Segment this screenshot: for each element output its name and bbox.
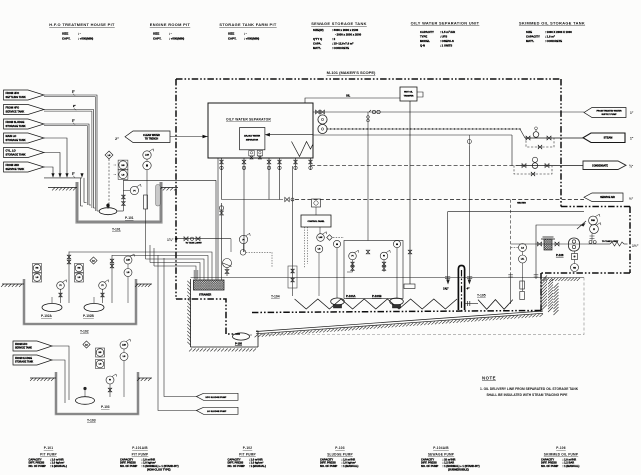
svg-text:SERVICE TANK: SERVICE TANK [15,347,32,350]
instr cluster T-102 A [33,264,42,273]
strainer standpipe [195,270,198,280]
slope hatch [255,314,543,337]
svg-text:P-101A/B: P-101A/B [132,446,148,450]
svg-text:TO TRENCH: TO TRENCH [145,138,159,140]
flag: FROM TREATED WATER SUPPLY PUMP [584,108,626,118]
svg-text:HEATER: HEATER [517,201,526,204]
instr: LAH sewage [317,234,325,242]
svg-text:PI: PI [133,190,135,192]
svg-text:DIFF. PRESS: DIFF. PRESS [320,461,336,465]
svg-text:P-104A/B: P-104A/B [433,446,449,450]
svg-text:FROM HFO: FROM HFO [6,91,20,95]
svg-text:2″: 2″ [115,136,119,141]
wire: heavy oil line along pit bottom [252,311,541,313]
wire: water discharge line y=135 [313,134,512,136]
wires from left flags [44,95,97,211]
svg-text:: 1.0 kg/cm²: : 1.0 kg/cm² [142,461,156,465]
flag: HFO SLUDGE PUMP [197,393,239,400]
instr: LAH T-103 [120,341,128,349]
svg-text:SERVICE TANK: SERVICE TANK [6,109,25,113]
wire: service air dashed line [295,199,584,201]
svg-text:CAPACITY: CAPACITY [120,457,133,461]
valve stubs in frame [366,250,370,254]
oil suction standpipe between pits [458,266,464,311]
check valves discharge [589,241,592,244]
wire: condensate drop x=512 [511,135,513,166]
svg-text:TO TANK LORRY: TO TANK LORRY [186,241,203,244]
pump P-102B [84,304,104,312]
instr: HS P-106 [571,264,579,272]
flag: CYL LO STORAGE TANK [4,148,45,158]
weir zigzag inside separator [292,142,314,157]
svg-text:P-102B: P-102B [83,314,95,318]
svg-text:PIT PUMP: PIT PUMP [239,452,256,456]
wires to sludge pump flags [164,258,197,397]
grade hatch left of T-103 [30,377,56,379]
pit T-105 sawtooth bottom [478,300,513,310]
flag: STEAM [583,133,625,143]
svg-text:LAH: LAH [122,344,126,347]
svg-text:P-105: P-105 [235,342,242,346]
wire: heavy oil line into deep pit [176,299,240,334]
svg-text:: 15~12.6+7.6 m³: : 15~12.6+7.6 m³ [332,42,353,46]
svg-text:FROM SLUDGE: FROM SLUDGE [6,120,25,124]
wire: LO header [44,177,82,179]
svg-text:SIZE: SIZE [526,30,532,34]
wires from T-103 flags [52,346,69,400]
gauge PI near strainer [239,235,247,243]
wire: P-101 discharge header to strainer [123,179,216,181]
svg-text:2″: 2″ [72,120,75,123]
inner box bottom fittings [249,151,254,156]
svg-text:LAH: LAH [126,259,130,262]
svg-text:SHALL BE INSULATED WITH STEAM: SHALL BE INSULATED WITH STEAM TRACING PI… [487,393,569,397]
svg-text:1″: 1″ [630,111,634,115]
svg-text:STORAGE TANK: STORAGE TANK [6,124,26,128]
instr: LAH T-102 [124,256,132,264]
svg-text:MAT'L: MAT'L [313,46,321,50]
svg-text:NO. OF PUMP: NO. OF PUMP [421,464,439,468]
svg-text:SLUDGE PUMP: SLUDGE PUMP [327,452,353,456]
svg-text:: 1.0 kg/cm²: : 1.0 kg/cm² [342,461,356,465]
svg-text:STORAGE TANK: STORAGE TANK [15,361,34,364]
svg-text:PI: PI [102,285,104,287]
wire: condensate drain drop to T-105 [447,212,449,282]
instr: level switch diamond T-101 [105,151,113,159]
svg-text:: -: : - [78,32,81,36]
wire: oil line from separator to waste oil box [305,98,400,103]
wire: sludge box in T-104 [288,266,297,288]
svg-text:: CONCRETE: : CONCRETE [332,46,349,50]
svg-text:PI: PI [242,239,244,241]
svg-text:T-105: T-105 [477,294,486,298]
svg-text:FROM TREATED WATER: FROM TREATED WATER [596,110,621,113]
unit: oily water separator box [208,103,313,158]
grade hatch left of T-101 [48,187,77,189]
wire: heavy oil line west at y275 [541,272,630,274]
svg-text:: -: : - [169,32,172,36]
pump P-102A [42,304,62,312]
wire: separator feed risers to strainer [217,158,219,280]
svg-text:LS: LS [123,356,126,358]
svg-text:: 1.0 m³/HR: : 1.0 m³/HR [142,457,156,461]
svg-text:DIFF. PRESS: DIFF. PRESS [421,461,437,465]
wire: P-102A discharge riser [68,252,70,304]
wire: standpipe outlet to T-105 [465,303,478,305]
arrowheads on LO header [51,173,54,177]
instr: LS sewage [315,245,323,253]
svg-text:: 1 (NORMAL) + 1 (STAND-BY): : 1 (NORMAL) + 1 (STAND-BY) [443,464,480,468]
svg-text:DIFF. PRESS: DIFF. PRESS [120,461,136,465]
svg-text:CAPACITY: CAPACITY [541,457,554,461]
inner box feed line with arrow [265,134,313,136]
svg-text:SERVICE AIR: SERVICE AIR [600,196,615,199]
instr: motor P-104B [393,240,400,247]
svg-text:: 1 (MANUAL): : 1 (MANUAL) [50,464,67,468]
wire: drains down to collection header [221,166,223,200]
pump frame for P-104A/B [344,241,403,299]
svg-text:SEWAGE STORAGE TANK: SEWAGE STORAGE TANK [311,21,367,26]
svg-text:PI: PI [383,256,385,258]
instr: LAH circle with flag [143,151,151,159]
deep pit left wall [190,279,192,347]
wire: LAH stem down to pump [146,170,148,209]
junction dot on boundary [175,237,178,240]
svg-text:CAPA.: CAPA. [313,42,322,46]
svg-text:NO. OF PUMP: NO. OF PUMP [541,464,559,468]
arrow from tank line [580,223,586,227]
panel signal dotted lines [304,227,306,268]
svg-text:1″: 1″ [630,137,634,141]
svg-text:CAPACITY: CAPACITY [320,457,333,461]
svg-text:LS: LS [36,277,39,279]
svg-text:MODEL: MODEL [420,39,430,43]
wire bundle to strainer [69,252,212,280]
svg-text:Q'TY Q: Q'TY Q [313,37,323,41]
grade hatch right of T-103 [138,377,152,379]
svg-text:PIT PUMP: PIT PUMP [132,452,149,456]
svg-text:M: M [146,164,148,167]
wire: treated water line y=112 [313,111,584,113]
svg-text:SIZE(W): SIZE(W) [313,28,324,32]
svg-text:HS: HS [36,268,39,270]
svg-text:OILY WATER SEPARATOR: OILY WATER SEPARATOR [226,118,271,122]
slope bank lines [256,311,543,332]
flag: FROM SLUDGE STORAGE TANK (T-103) [13,355,52,365]
svg-text:2″: 2″ [72,173,75,176]
svg-text:NO. OF PUMP: NO. OF PUMP [120,464,138,468]
wire: panel line down [319,227,321,234]
wire: branch down to sewage discharge [367,112,369,124]
svg-text:CAPACITY: CAPACITY [29,457,42,461]
svg-text:- 2000 x 2000 x 2000: - 2000 x 2000 x 2000 [335,33,362,37]
steam valve group [525,137,583,139]
svg-text:OILY WATER SEPARATION UNIT: OILY WATER SEPARATION UNIT [411,21,480,26]
svg-text:PIT PUMP: PIT PUMP [40,452,57,456]
svg-text:: 1 (NORMAL) + 1 (STAND-BY): : 1 (NORMAL) + 1 (STAND-BY) [142,464,179,468]
svg-text:NO. OF PUMP: NO. OF PUMP [29,464,47,468]
svg-text:P-106: P-106 [556,253,564,257]
svg-text:1¾″: 1¾″ [167,238,174,242]
steam trap x=470 [468,135,470,146]
svg-text:P-103: P-103 [101,405,110,409]
flag: SERVICE AIR [584,193,623,202]
separator drain valves [221,158,223,170]
wire: trench line to separator [170,136,208,138]
svg-text:4″: 4″ [467,287,471,291]
svg-text:P-104A: P-104A [346,294,355,298]
svg-text:2″: 2″ [72,91,75,94]
svg-text:: +500(MIN): : +500(MIN) [78,37,93,41]
svg-text:: 1 UNITS: : 1 UNITS [440,44,452,48]
gauge small dotted [240,250,246,256]
svg-text:SEWAGE PUMP: SEWAGE PUMP [428,452,455,456]
control panel box [301,215,331,227]
svg-text:LS: LS [521,247,524,249]
waste oil transfer box [400,87,417,101]
svg-text:1. OIL DELIVERY LINE FROM SEPA: 1. OIL DELIVERY LINE FROM SEPARATED OIL … [480,387,579,391]
svg-text:2″: 2″ [73,105,76,108]
svg-text:PI: PI [352,256,354,258]
svg-text:FROM HFO: FROM HFO [15,344,27,346]
svg-text:STORAGE TANK: STORAGE TANK [6,152,26,156]
svg-text:CONDENSATE: CONDENSATE [592,164,608,167]
svg-text:: 1.9 m³: : 1.9 m³ [545,35,555,39]
flag: MAIN LO STORAGE TANK [4,133,45,143]
svg-text:: 1.2 BAR: : 1.2 BAR [563,461,575,465]
wire: drain drop 4in to T-105 [468,146,470,282]
instr: PI gauge P-101 [130,186,138,194]
svg-text:: +500(MIN): : +500(MIN) [169,37,184,41]
svg-text:: 1.0 m³/HR: : 1.0 m³/HR [249,457,263,461]
svg-text:CAPY.: CAPY. [62,37,71,41]
svg-text:PAH: PAH [591,219,595,222]
svg-text:P-102A: P-102A [41,314,53,318]
wire: heavy oil line down to pit bottom [540,273,542,310]
svg-text:DIFF. PRESS: DIFF. PRESS [541,461,557,465]
svg-text:NO. OF PUMP: NO. OF PUMP [320,464,338,468]
svg-text:DIFF. PRESS: DIFF. PRESS [228,461,244,465]
svg-text:Q-N: Q-N [420,44,425,48]
svg-text:½″: ½″ [629,197,634,201]
svg-text:: 1.0 kg/cm²: : 1.0 kg/cm² [50,461,64,465]
anchor block [404,284,415,289]
svg-text:: 10 m³/HR: : 10 m³/HR [443,457,456,461]
grade hatch right of T-101 [161,187,178,189]
pit T-101 walls [77,182,161,222]
svg-text:: 1.0 m³/HR: : 1.0 m³/HR [50,457,64,461]
svg-text:LS: LS [78,277,81,279]
instr: HS/LS T-103 [96,348,105,357]
wire: P-102B discharge riser [111,255,113,303]
pump P-104A [331,298,345,305]
flag: FROM HFO SERVICE TANK (T-103) [13,341,52,351]
pit T-102 walls [24,279,136,324]
instr: PI T-103 [106,376,114,384]
wire: discharge x=410 down from waste oil box [409,101,411,284]
svg-text:: 1.0 m³/HR: : 1.0 m³/HR [342,457,356,461]
svg-text:P-103: P-103 [335,446,345,450]
svg-text:M: M [396,244,398,246]
svg-text:SEPARATOR: SEPARATOR [246,139,259,142]
wire: condensate dashed from separator [311,165,518,167]
svg-text:STRAINER: STRAINER [199,294,211,297]
suction strainer basket [544,239,552,250]
svg-text:SIZE: SIZE [228,32,234,36]
svg-text:SUPPLY PUMP: SUPPLY PUMP [601,114,617,116]
svg-text:SERVICE TANK: SERVICE TANK [6,167,25,171]
flag: LO SLUDGE PUMP [197,407,239,414]
condensate valve group [518,165,583,167]
svg-text:CONTROL PANEL: CONTROL PANEL [307,220,325,223]
svg-text:TO TANK LORRY: TO TANK LORRY [602,240,619,243]
wire: M-101 boundary right [560,79,562,207]
pit T-104 sawtooth bottom [295,299,457,309]
svg-text:P-106: P-106 [556,446,566,450]
wire: M-101 boundary left [175,79,177,299]
svg-text:MAT'L: MAT'L [526,39,534,43]
svg-text:: -: : - [244,32,247,36]
svg-text:FROM HFO: FROM HFO [6,106,20,110]
wire: P-104B riser [396,248,398,298]
pump P-101 [99,208,117,215]
valve on service air header [285,197,289,201]
steam bypass loop [526,138,554,147]
svg-text:STORAGE TANK FARM PIT: STORAGE TANK FARM PIT [219,22,277,27]
level gauge column [144,195,148,209]
deep pit right wall [256,331,258,347]
instr: motor circle [143,161,151,169]
svg-text:(SUBMERSIBLE): (SUBMERSIBLE) [448,468,469,472]
pit T-103 walls [56,372,138,414]
svg-text:STEAM: STEAM [604,137,613,140]
svg-text:CYL. LO: CYL. LO [6,149,16,153]
svg-text:1½″: 1½″ [632,244,639,248]
svg-text:: 2: : 2 [332,37,336,41]
svg-text:P-102: P-102 [243,446,253,450]
svg-text:LAH: LAH [319,236,323,239]
svg-text:CAPACITY: CAPACITY [421,457,434,461]
svg-text:: 1.0 kg/cm²: : 1.0 kg/cm² [249,461,263,465]
grade hatch right of T-102 [136,283,152,285]
skid frame lines [510,200,512,276]
svg-text:OIL: OIL [346,95,351,98]
svg-text:HS: HS [99,352,102,354]
svg-text:PI: PI [109,380,111,382]
instr cluster T-102 B [75,264,84,273]
instr: LS T-105 pair [519,244,527,252]
instr: PI P-106 [590,225,599,234]
ts box above control panel [312,199,321,207]
wire: traced steam line [327,128,520,130]
strainer [194,280,225,290]
svg-text:LS: LS [127,272,130,274]
svg-text:SETTLING TANK: SETTLING TANK [6,95,26,99]
grade line across sewage area [191,277,544,279]
wire: collection header y=199.5 [222,199,284,201]
svg-text:SIZE: SIZE [62,32,68,36]
svg-text:NO. OF PUMP: NO. OF PUMP [228,464,246,468]
instr: LS circle [118,170,128,180]
flag: FROM HFO SETTLING TANK [4,90,45,100]
svg-text:M-101 (MAKER’S SCOPE): M-101 (MAKER’S SCOPE) [327,70,376,75]
condensate bypass loop [514,166,552,174]
wire: P-103 suction stub [84,390,86,397]
svg-text:PI: PI [593,229,595,231]
pump P-104B [390,298,404,305]
svg-text:M: M [336,244,338,246]
svg-text:: +500(MIN): : +500(MIN) [244,37,259,41]
wire: P-101 discharge riser [122,180,124,211]
svg-text:TYPE: TYPE [420,35,427,39]
wire: P-104A riser [336,248,338,298]
separator transfer pumps [318,115,327,124]
wire: heavy oil line east from boundary [561,206,630,208]
wire: pump risers vertical [51,297,53,303]
instr: PI P-104A [349,252,357,260]
svg-text:TRNSFER: TRNSFER [404,96,414,98]
svg-text:HS: HS [78,268,81,270]
svg-text:MAIN LO: MAIN LO [6,134,17,138]
svg-text:LO SLUDGE PUMP: LO SLUDGE PUMP [207,411,227,413]
svg-text:FROM HSD: FROM HSD [6,163,20,167]
svg-text:: 1.2 BAR: : 1.2 BAR [443,461,455,465]
svg-text:T-103: T-103 [87,419,96,423]
flag: CONDENSATE (points right) [583,161,626,170]
pump P-106 [569,238,580,251]
svg-text:SKIMMED OIL STORAGE TANK: SKIMMED OIL STORAGE TANK [519,21,585,26]
pump P-103 [76,397,95,405]
svg-text:: 1 (MANUAL): : 1 (MANUAL) [563,464,580,468]
svg-text:AIR,OILY WATER: AIR,OILY WATER [244,135,261,138]
svg-text:(NON-CLOG TYPE): (NON-CLOG TYPE) [147,468,171,472]
sump pump in deep pit [233,333,250,340]
grade hatch left of T-102 [2,283,24,285]
wire: sludge drop line x=292.6 [292,166,294,278]
float switches in T-105 [520,281,525,289]
svg-text:SKIMMED OIL PUMP: SKIMMED OIL PUMP [544,452,579,456]
svg-text:1⅝″: 1⅝″ [443,287,449,291]
svg-text:PI: PI [60,285,62,287]
svg-text:WST OIL: WST OIL [404,92,413,94]
svg-text:DIFF. PRESS: DIFF. PRESS [29,461,45,465]
suction dot [107,203,109,209]
svg-text:LS: LS [108,155,111,157]
instr: PAH P-106 [589,216,598,225]
svg-text:: 1.5 m³ /HR: : 1.5 m³ /HR [440,30,455,34]
svg-text:: CONCRETE: : CONCRETE [545,39,562,43]
svg-text:LAL: LAL [521,258,524,261]
svg-text:: 1 (MANUAL): : 1 (MANUAL) [249,464,266,468]
instr: diamond T-102 [90,257,97,264]
motor starter box [572,254,578,260]
instr: motor P-104A [333,240,340,247]
svg-text:P-101: P-101 [44,446,54,450]
overflow bell pipe [156,185,161,207]
svg-text:: 1 (MANUAL): : 1 (MANUAL) [342,464,359,468]
svg-text:: OSEPA-S: : OSEPA-S [440,39,454,43]
svg-text:HFO SLUDGE PUMP: HFO SLUDGE PUMP [206,397,227,399]
svg-text:CAPACITY: CAPACITY [526,35,540,39]
svg-text:: UFS: : UFS [440,35,447,39]
svg-text:: 1.0 m³/HR: : 1.0 m³/HR [563,457,577,461]
svg-text:¾″: ¾″ [629,165,634,169]
svg-text:LS: LS [318,249,321,251]
svg-text:T-101: T-101 [112,228,121,232]
svg-text:STORAGE TANK: STORAGE TANK [6,138,26,142]
svg-text:SIZE: SIZE [153,32,159,36]
svg-text:CLEAN WATER: CLEAN WATER [143,134,160,137]
